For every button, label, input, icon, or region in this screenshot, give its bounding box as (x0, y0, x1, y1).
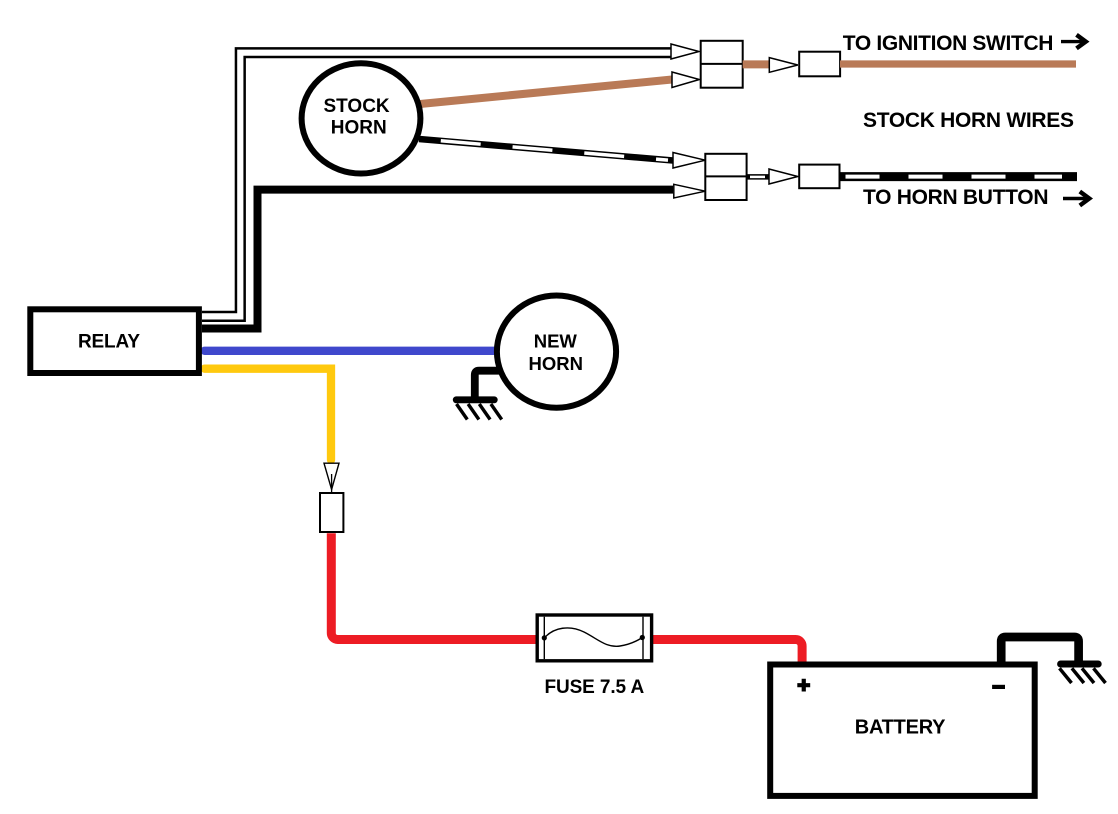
svg-text:BATTERY: BATTERY (855, 717, 946, 739)
svg-text:RELAY: RELAY (78, 332, 140, 353)
svg-text:HORN: HORN (529, 353, 583, 374)
svg-text:STOCK: STOCK (324, 96, 390, 117)
svg-text:HORN: HORN (331, 118, 387, 139)
svg-text:TO HORN BUTTON: TO HORN BUTTON (863, 186, 1048, 209)
svg-text:STOCK HORN WIRES: STOCK HORN WIRES (863, 109, 1074, 132)
svg-text:NEW: NEW (534, 330, 578, 351)
svg-text:FUSE 7.5 A: FUSE 7.5 A (544, 677, 644, 698)
svg-text:TO IGNITION SWITCH: TO IGNITION SWITCH (843, 32, 1053, 55)
